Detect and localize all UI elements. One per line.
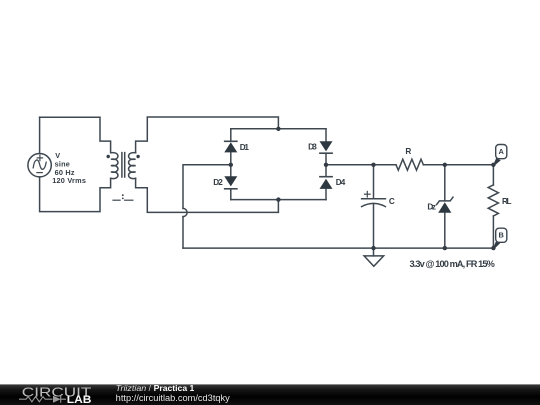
svg-text:Practica 1: Practica 1 (154, 384, 195, 393)
svg-text:D1: D1 (240, 143, 250, 152)
svg-text:A: A (499, 147, 505, 156)
svg-text:D2: D2 (213, 178, 223, 187)
svg-text:C: C (389, 197, 395, 206)
svg-text:B: B (499, 231, 504, 240)
svg-text:LAB: LAB (67, 394, 92, 405)
svg-text:D3: D3 (308, 142, 317, 151)
svg-text:120 Vrms: 120 Vrms (52, 176, 86, 185)
svg-text:Triiztian: Triiztian (116, 384, 147, 393)
svg-text:3.3v @ 100 mA, FR 15%: 3.3v @ 100 mA, FR 15% (410, 259, 495, 269)
svg-text:Dz: Dz (427, 203, 436, 212)
svg-text:R: R (405, 147, 411, 156)
svg-text:http://circuitlab.com/cd3tqky: http://circuitlab.com/cd3tqky (116, 393, 231, 403)
svg-text:D4: D4 (336, 178, 346, 187)
svg-text:RL: RL (502, 197, 512, 206)
